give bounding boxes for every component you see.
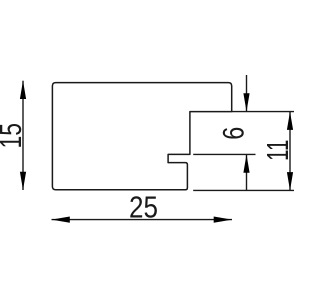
arrowhead 6 upper (down)	[243, 93, 249, 111]
dimension line 11 (right vertical)	[289, 112, 291, 191]
dimension line 6 upper segment	[246, 75, 248, 112]
svg-text:6: 6	[217, 127, 250, 140]
extension line y=111.6 (rabbet ledge, right of profile)	[232, 111, 294, 113]
moulding profile outline	[52, 83, 231, 190]
dimension line 6 lower segment	[246, 154, 248, 190]
arrowhead 11 top (up)	[287, 112, 293, 130]
dimension line 15 (left vertical)	[22, 81, 24, 190]
dimension line 25 (bottom horizontal)	[52, 219, 233, 221]
svg-text:11: 11	[260, 140, 295, 161]
arrowhead 15 top (up)	[20, 81, 26, 99]
extension line y=154.4 (groove top level)	[193, 153, 255, 155]
svg-text:25: 25	[129, 191, 158, 226]
arrowhead 6 lower (up)	[243, 154, 249, 172]
arrowhead 25 right	[214, 217, 232, 223]
arrowhead 15 bottom (down)	[20, 172, 26, 190]
arrowhead 25 left	[52, 217, 70, 223]
extension line y=190.4 (bottom level, right side)	[193, 189, 294, 191]
arrowhead 11 bottom (down)	[287, 172, 293, 190]
svg-text:15: 15	[0, 123, 28, 148]
